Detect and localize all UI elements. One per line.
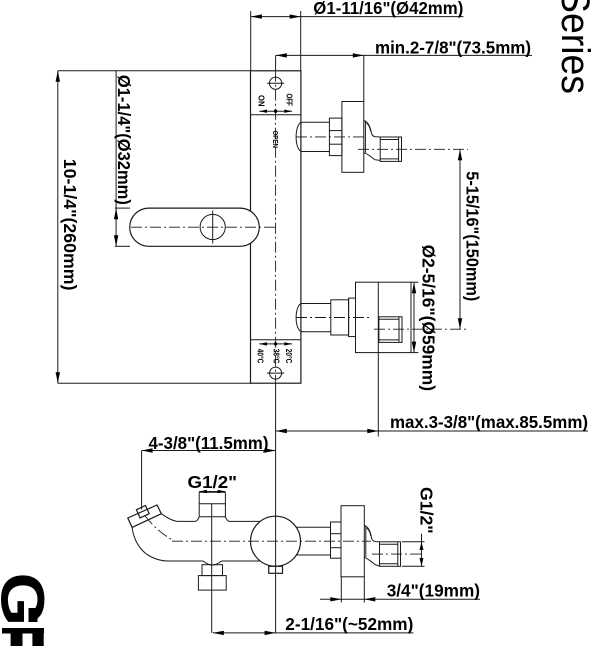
bottom view hex nut (331, 522, 342, 558)
dimension D32 extension lines (115, 71, 117, 208)
ON/OFF indicator arrows (259, 110, 292, 112)
svg-text:20°C: 20°C (284, 349, 293, 364)
svg-text:G1/2": G1/2" (188, 472, 238, 492)
handle screw (200, 214, 225, 239)
dimension 2-1/16 line (213, 632, 413, 634)
svg-text:G1/2": G1/2" (417, 487, 437, 534)
top valve nipple axis (358, 148, 468, 150)
spout nozzle end cap (128, 505, 162, 527)
logo G terminal bar (29, 608, 38, 622)
spout curved centerline (145, 516, 172, 540)
dimension 3/4 line (320, 598, 480, 600)
dimension 4-3/8 line (142, 450, 276, 452)
dimension 4-3/8 extension line (141, 451, 143, 510)
dimension 10-1/4 line (57, 71, 59, 383)
lever handle (130, 208, 260, 246)
svg-text:G: G (0, 573, 57, 627)
svg-text:OPEN: OPEN (271, 131, 278, 149)
svg-text:Ø1-11/16"(Ø42mm): Ø1-11/16"(Ø42mm) (313, 0, 463, 18)
spout upper edge (161, 514, 199, 522)
svg-text:2-1/16"(~52mm): 2-1/16"(~52mm) (285, 614, 413, 634)
top screw (270, 77, 282, 89)
dimension G12 top arrows (199, 491, 225, 493)
node center axis extension above plate (275, 55, 277, 70)
bottom valve flange (356, 282, 412, 352)
wire flange inner edge (377, 282, 379, 352)
bottom valve collar (349, 298, 356, 337)
diverter knob circle (251, 516, 301, 566)
bottom outlet dome (203, 561, 221, 565)
top valve threaded nipple (380, 137, 401, 161)
svg-text:Ø1-1/4"(Ø32mm): Ø1-1/4"(Ø32mm) (114, 75, 134, 205)
spout aerator tab (136, 506, 149, 518)
wire hex flat lines (329, 130, 342, 132)
top valve pipe centerline (296, 136, 364, 138)
bottom outlet lower nut (198, 576, 226, 591)
body pipe top edge right segment (225, 517, 260, 522)
body pipe bottom edge right segment (221, 560, 260, 562)
top valve hex nut (329, 118, 342, 156)
spout lower curve (132, 527, 203, 561)
svg-text:5-15/16"(150mm): 5-15/16"(150mm) (462, 171, 482, 301)
bottom valve nipple axis (374, 328, 468, 330)
svg-text:ON: ON (256, 95, 265, 107)
plate vertical centerline (275, 71, 277, 383)
wall plate body (front view) (251, 71, 301, 383)
bottom valve nut (331, 300, 349, 335)
dimension min line (276, 54, 532, 56)
svg-text:10-1/4"(260mm): 10-1/4"(260mm) (60, 159, 80, 291)
svg-text:38°C: 38°C (272, 349, 281, 364)
bottom screw (270, 367, 282, 379)
dimension G12 right (421, 534, 423, 567)
bottom view threaded nipple (380, 542, 401, 567)
dimension D42 extension lines (250, 11, 252, 71)
svg-text:40°C: 40°C (255, 349, 264, 364)
dimension D59 line (413, 282, 415, 352)
bottom valve pipe (296, 304, 331, 332)
bottom valve threaded nipple (379, 317, 402, 343)
svg-text:min.2-7/8"(73.5mm): min.2-7/8"(73.5mm) (375, 37, 531, 57)
svg-text:Ø2-5/16"(Ø59mm): Ø2-5/16"(Ø59mm) (419, 245, 439, 391)
dimension min extension line (363, 55, 365, 101)
body pipe centerline (172, 540, 371, 542)
svg-text:3/4"(19mm): 3/4"(19mm) (387, 580, 480, 600)
dimension D32 line (115, 208, 117, 246)
bottom view flange (341, 506, 364, 577)
svg-text:max.3-3/8"(max.85.5mm): max.3-3/8"(max.85.5mm) (390, 412, 588, 432)
wire plate top divider (251, 114, 301, 116)
svg-text:Series: Series (553, 0, 597, 94)
svg-text:4-3/8"(11.5mm): 4-3/8"(11.5mm) (149, 433, 269, 453)
bottom view nipple axis (372, 553, 424, 555)
wire plate bottom divider (251, 339, 301, 341)
top valve flange (342, 102, 364, 173)
bottom valve pipe centerline (296, 317, 369, 319)
dimension max line (276, 430, 588, 432)
svg-text:OFF: OFF (285, 94, 294, 107)
dimension D59 extension lines (411, 281, 418, 283)
bottom outlet upper nut (202, 565, 223, 576)
logo second letter stem (2, 628, 44, 634)
bottom view horn (365, 526, 367, 558)
logo second letter arm 2 (32, 634, 43, 646)
top inlet fitting (199, 492, 225, 516)
top valve outlet horn (364, 121, 366, 153)
node center axis extension below plate (275, 383, 277, 633)
bottom view valve pipe top (296, 526, 330, 528)
dimension max extension line (377, 353, 379, 437)
dimension D42 line (251, 16, 464, 18)
diverter tab (269, 566, 283, 573)
bottom view valve pipe bottom (296, 554, 330, 556)
dimension 10-1/4 extension lines (58, 70, 251, 72)
handle centerline (131, 226, 276, 228)
dimension 5-15/16 line (459, 149, 461, 329)
temperature indicator arrows (259, 343, 292, 345)
logo second letter arm 1 (11, 634, 23, 646)
dimension 3/4 extension lines (340, 577, 342, 603)
top valve pipe (296, 122, 329, 151)
port axis line (211, 504, 213, 633)
